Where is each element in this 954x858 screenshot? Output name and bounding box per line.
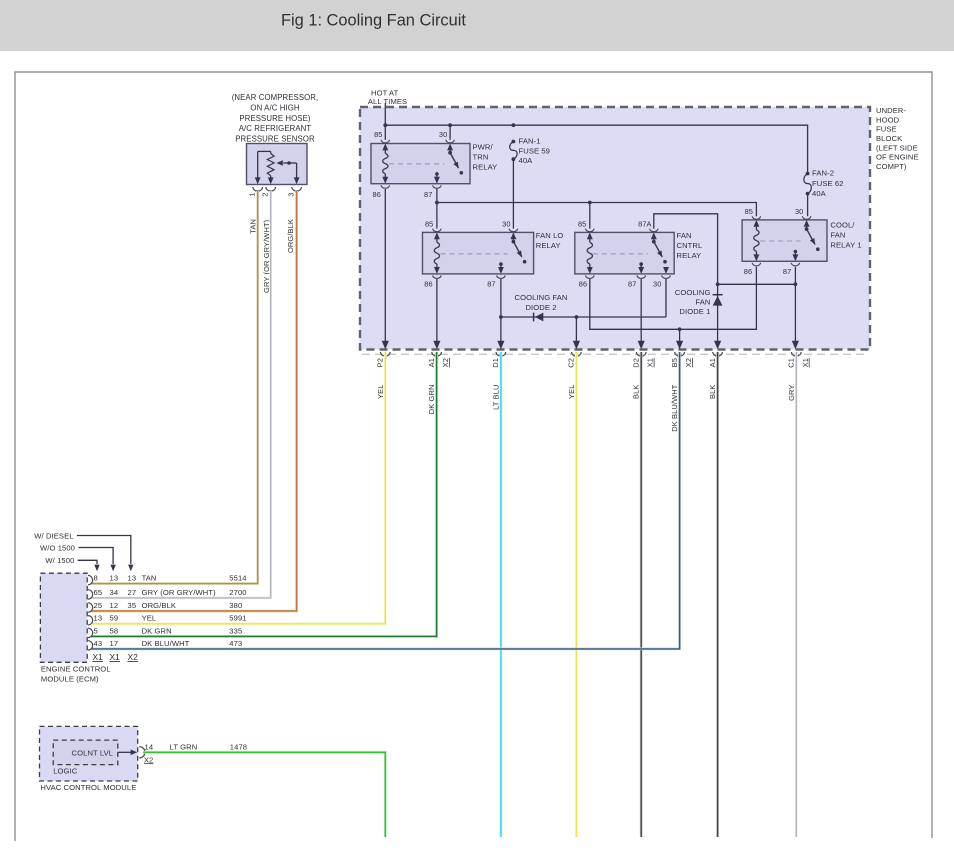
svg-text:BLOCK: BLOCK [876, 134, 902, 143]
label FAN LO RELAY [536, 231, 564, 250]
node W/O 1500 [40, 544, 116, 572]
svg-text:FAN: FAN [677, 231, 692, 240]
node ECM row YEL 5991 [88, 614, 247, 625]
pin 85 U1 [374, 130, 389, 143]
svg-text:RELAY: RELAY [536, 241, 561, 250]
svg-text:5: 5 [94, 626, 98, 635]
node ECM row DK BLU/WHT 473 [88, 639, 242, 650]
underhood fuse block label [876, 106, 919, 171]
svg-text:DK BLU/WHT: DK BLU/WHT [142, 639, 190, 648]
svg-text:A1: A1 [427, 358, 436, 367]
svg-text:PRESSURE HOSE): PRESSURE HOSE) [239, 114, 310, 123]
svg-text:(LEFT SIDE: (LEFT SIDE [876, 143, 918, 152]
svg-text:DK GRN: DK GRN [427, 385, 436, 415]
pin 87 U2 [487, 275, 505, 288]
svg-text:HOOD: HOOD [876, 115, 900, 124]
svg-text:59: 59 [110, 614, 119, 623]
svg-text:87: 87 [424, 190, 432, 199]
junction 86-net at B5 [678, 327, 682, 331]
svg-text:FAN-2: FAN-2 [812, 169, 834, 178]
pin 30 U1 [439, 130, 454, 143]
wire U2 pin87 down [497, 279, 504, 349]
svg-text:85: 85 [374, 130, 382, 139]
label PWR/TRN RELAY [473, 143, 498, 172]
node A1 exit label [708, 352, 723, 399]
wire YEL circuit C2 [575, 352, 578, 837]
wire U2 pin86 to exit A1 [433, 279, 440, 349]
svg-text:GRY (OR GRY/WHT): GRY (OR GRY/WHT) [142, 588, 217, 597]
junction bus at PWR coil [383, 123, 387, 127]
sensor potentiometer R [267, 151, 274, 184]
svg-text:ORG/BLK: ORG/BLK [286, 219, 295, 253]
svg-text:FUSE: FUSE [876, 125, 897, 134]
diode COOLING FAN DIODE 2 [501, 293, 666, 321]
svg-text:473: 473 [229, 639, 242, 648]
svg-text:Fig 1: Cooling Fan Circuit: Fig 1: Cooling Fan Circuit [281, 12, 466, 30]
wire BLK circuit A1 [716, 352, 719, 837]
node ECM row ORG/BLK 380 [88, 601, 242, 612]
svg-text:YEL: YEL [567, 385, 576, 399]
svg-text:5991: 5991 [229, 614, 246, 623]
svg-text:30: 30 [502, 219, 510, 228]
pin 30 U2 [502, 219, 517, 231]
fuse FAN-2 FUSE 62 40A [804, 169, 844, 199]
svg-text:PWR/: PWR/ [473, 143, 494, 152]
svg-text:RELAY 1: RELAY 1 [830, 240, 861, 249]
svg-text:LOGIC: LOGIC [53, 766, 78, 775]
svg-text:TRN: TRN [473, 153, 489, 162]
svg-text:W/O 1500: W/O 1500 [40, 544, 75, 553]
relay U3 pin 30 stub [663, 267, 669, 274]
svg-text:13: 13 [94, 614, 103, 623]
label ENGINE CONTROL MODULE (ECM) [41, 665, 111, 684]
wire LT BLU circuit D1 [499, 352, 502, 837]
svg-text:65: 65 [94, 588, 103, 597]
svg-text:FUSE 62: FUSE 62 [812, 179, 844, 188]
svg-text:86: 86 [744, 267, 752, 276]
svg-text:TAN: TAN [248, 219, 257, 234]
relay U1 coil [382, 144, 388, 184]
wire U3 87A up-over-down [654, 214, 718, 284]
pin 85 U2 [425, 219, 441, 231]
svg-text:87: 87 [628, 279, 636, 288]
svg-text:W/ DIESEL: W/ DIESEL [34, 532, 73, 541]
svg-text:25: 25 [94, 601, 103, 610]
junction bus at PWR switch [448, 123, 452, 127]
svg-text:17: 17 [110, 639, 119, 648]
label FAN CNTRL RELAY [677, 231, 703, 260]
svg-text:BLK: BLK [708, 385, 717, 399]
svg-text:30: 30 [439, 130, 447, 139]
wire GRY circuit C1 [795, 352, 798, 837]
svg-text:2700: 2700 [229, 588, 246, 597]
svg-text:COMPT): COMPT) [876, 162, 907, 171]
ECM connector ids X1 X1 X2 [93, 652, 139, 662]
sensor caption [232, 93, 319, 144]
svg-text:FAN-1: FAN-1 [519, 137, 541, 146]
svg-text:40A: 40A [812, 189, 827, 198]
relay U1 PWR/TRN RELAY box [371, 144, 470, 184]
node P2 exit label [376, 352, 391, 399]
svg-text:85: 85 [578, 219, 586, 228]
sensor pin 2 [260, 187, 275, 197]
relay U1 switch [447, 144, 463, 175]
svg-text:P2: P2 [376, 358, 385, 367]
svg-text:C2: C2 [567, 358, 576, 368]
svg-text:UNDER-: UNDER- [876, 106, 907, 115]
svg-text:COLNT LVL: COLNT LVL [72, 748, 114, 757]
relay U4 COOL/FAN RELAY 1 box [742, 220, 827, 261]
pin 87 U4 [783, 263, 800, 276]
svg-text:3: 3 [286, 193, 295, 197]
HVAC COLNT LVL logic box [53, 740, 118, 765]
svg-text:87: 87 [783, 267, 791, 276]
svg-text:43: 43 [94, 639, 103, 648]
pin 86 U4 [744, 263, 761, 276]
svg-text:HVAC CONTROL MODULE: HVAC CONTROL MODULE [40, 783, 136, 792]
svg-text:BLK: BLK [632, 385, 641, 399]
wire DK BLU/WHT circuit 473 (B5 to ECM) [91, 352, 680, 649]
svg-text:8: 8 [94, 574, 98, 583]
svg-text:87: 87 [487, 279, 495, 288]
wire LT GRN circuit 1478 [143, 752, 385, 837]
wire B5 exit [676, 329, 683, 349]
pin 30 U3 [653, 275, 670, 288]
relay U3 coil [587, 232, 593, 274]
svg-text:12: 12 [110, 601, 119, 610]
wire U3 pin87 to exit D2 [638, 279, 645, 349]
relay U2 pin 87 stub [498, 262, 504, 274]
svg-text:FAN: FAN [830, 230, 845, 239]
sensor internal pin1 lead [255, 151, 271, 184]
svg-text:COOLING FAN: COOLING FAN [515, 293, 568, 302]
svg-text:ALL TIMES: ALL TIMES [368, 97, 407, 106]
relay U3 FAN CNTRL RELAY box [575, 232, 674, 274]
svg-text:86: 86 [373, 190, 381, 199]
svg-text:YEL: YEL [142, 614, 157, 623]
svg-text:X2: X2 [128, 652, 139, 662]
label HVAC CONTROL MODULE [40, 783, 136, 792]
relay U2 switch [510, 232, 526, 263]
sensor B1 A/C refrigerant pressure sensor box [247, 144, 308, 185]
svg-text:30: 30 [653, 279, 661, 288]
wire 87 rail [437, 203, 757, 217]
svg-text:(NEAR COMPRESSOR,: (NEAR COMPRESSOR, [232, 93, 319, 102]
node HOT AT ALL TIMES [368, 89, 407, 107]
fuse block connector face line [362, 353, 868, 355]
svg-text:B5: B5 [670, 358, 679, 367]
pin 86 U2 [424, 275, 441, 288]
svg-text:RELAY: RELAY [473, 163, 498, 172]
svg-text:A/C REFRIGERANT: A/C REFRIGERANT [239, 124, 312, 133]
pin 87 U1 [424, 185, 441, 199]
junction bus at fuse FAN-1 [512, 123, 516, 127]
node B5 exit label [670, 352, 693, 432]
svg-text:ENGINE CONTROL: ENGINE CONTROL [41, 665, 111, 674]
node W/ DIESEL [34, 532, 133, 572]
svg-text:85: 85 [425, 219, 433, 228]
svg-text:DIODE 1: DIODE 1 [679, 307, 710, 316]
wire TAN circuit 5514 [91, 191, 258, 584]
sensor wiper arm [276, 160, 299, 184]
underhood fuse block outline [360, 107, 870, 350]
svg-text:27: 27 [128, 588, 137, 597]
fuse FAN-1 FUSE 59 40A [510, 137, 550, 166]
wire U1 pin86 to exit P2 [382, 189, 389, 349]
relay U2 FAN LO RELAY box [423, 232, 534, 274]
svg-text:D1: D1 [491, 358, 500, 368]
svg-text:1478: 1478 [230, 743, 247, 752]
relay U4 coil [753, 220, 759, 261]
pin 86 U3 [579, 275, 594, 288]
wire ORG/BLK circuit 380 [91, 191, 297, 611]
HVAC pin 14 X2 [139, 743, 153, 765]
svg-text:40A: 40A [519, 156, 534, 165]
wire pin87 branch left to diode 1 [718, 283, 796, 285]
svg-text:86: 86 [579, 279, 587, 288]
svg-text:58: 58 [110, 626, 119, 635]
svg-text:X2: X2 [684, 358, 693, 367]
svg-text:X1: X1 [110, 652, 121, 662]
svg-text:35: 35 [128, 601, 137, 610]
svg-text:5514: 5514 [229, 574, 246, 583]
junction diode1 top [716, 282, 720, 286]
svg-text:85: 85 [745, 207, 753, 216]
svg-text:335: 335 [229, 626, 242, 635]
junction rail at FAN LO 85 [435, 201, 439, 205]
diode COOLING FAN DIODE 1 [675, 284, 723, 349]
wire DK GRN circuit 335 (A1 to ECM) [91, 352, 437, 636]
svg-text:LT GRN: LT GRN [170, 743, 198, 752]
pin 85 U3 [578, 219, 594, 231]
pin 85 U4 [745, 207, 761, 219]
svg-text:30: 30 [795, 207, 803, 216]
relay U3 switch [651, 232, 667, 263]
pin 30 U4 [795, 207, 811, 219]
svg-text:380: 380 [229, 601, 242, 610]
svg-text:X1: X1 [93, 652, 104, 662]
HVAC logic output arrow [118, 750, 137, 756]
label COOL/FAN RELAY 1 [830, 220, 861, 249]
wire U1 pin87 down to rail [436, 189, 438, 203]
node C1 exit label [787, 352, 810, 401]
wire rail to FAN CNTRL pin 85 [589, 203, 591, 229]
wire BLK circuit D2 [640, 352, 643, 837]
svg-text:LT BLU: LT BLU [491, 385, 500, 410]
junction pin87 branch to diode1 [794, 282, 798, 286]
junction diode2 at C2 exit [575, 315, 579, 319]
wire hot feed into block [384, 103, 386, 140]
node D2 exit label [631, 352, 654, 399]
wire bus to pin30 PWR/TRN [449, 125, 451, 140]
pin 86 U1 [373, 185, 390, 199]
svg-text:34: 34 [110, 588, 119, 597]
ECM box [40, 573, 87, 662]
svg-text:DK GRN: DK GRN [142, 626, 172, 635]
svg-text:X1: X1 [646, 358, 655, 367]
node ECM row GRY (OR GRY/WHT) 2700 [88, 588, 247, 599]
junction diode2 at FAN LO 87 [499, 315, 503, 319]
svg-text:DIODE 2: DIODE 2 [525, 303, 556, 312]
wire GRY circuit 2700 [91, 191, 271, 598]
svg-text:A1: A1 [708, 358, 717, 367]
label LT GRN 1478 [170, 743, 247, 752]
wire YEL circuit 5991 (P2 to ECM) [91, 352, 385, 624]
relay U3 pin 87 stub [638, 262, 644, 274]
svg-text:X1: X1 [801, 358, 810, 367]
node W/ 1500 [45, 556, 99, 571]
svg-text:PRESSURE SENSOR: PRESSURE SENSOR [235, 135, 315, 144]
svg-text:D2: D2 [631, 358, 640, 368]
sensor pin 1 [247, 187, 262, 197]
relay U2 coil [434, 232, 440, 274]
svg-text:ON A/C HIGH: ON A/C HIGH [250, 103, 299, 112]
svg-text:YEL: YEL [376, 385, 385, 399]
svg-text:GRY: GRY [787, 385, 796, 401]
label TAN wire [248, 219, 257, 234]
svg-text:C1: C1 [787, 358, 796, 368]
svg-text:FAN LO: FAN LO [536, 231, 564, 240]
svg-text:OF ENGINE: OF ENGINE [876, 153, 919, 162]
svg-text:DK BLU/WHT: DK BLU/WHT [670, 384, 679, 432]
svg-text:1: 1 [247, 193, 256, 197]
svg-text:X2: X2 [441, 358, 450, 367]
pin 87 U3 [628, 275, 645, 288]
junction rail at FAN CNTRL 85 [588, 201, 592, 205]
svg-text:13: 13 [128, 574, 137, 583]
sensor pin 3 [286, 187, 301, 197]
svg-text:MODULE (ECM): MODULE (ECM) [41, 675, 99, 684]
node D1 exit label [491, 352, 506, 410]
wire rail to FAN LO pin 85 [436, 203, 438, 229]
label LOGIC [53, 766, 78, 775]
svg-text:87A: 87A [638, 219, 651, 228]
svg-text:RELAY: RELAY [677, 251, 702, 260]
label GRY (OR GRY/WHT) wire [262, 219, 271, 293]
svg-text:W/ 1500: W/ 1500 [45, 556, 74, 565]
node A1 exit label [427, 352, 450, 414]
node C2 exit label [567, 352, 582, 399]
node ECM row DK GRN 335 [88, 626, 242, 637]
label ORG/BLK wire [286, 219, 295, 253]
svg-text:CNTRL: CNTRL [677, 241, 703, 250]
svg-text:COOLING: COOLING [675, 288, 711, 297]
svg-text:FUSE 59: FUSE 59 [519, 146, 551, 155]
relay U4 pin 87 stub [792, 250, 798, 262]
wire fuse FAN-2 to COOL/FAN pin 30 [807, 194, 809, 217]
wire fuse FAN-1 to FAN LO pin 30 [512, 159, 514, 228]
wire top bus [385, 125, 807, 173]
svg-text:86: 86 [424, 279, 432, 288]
wire diode2 to FAN CNTRL pin 30 [665, 279, 667, 318]
relay U1 pin 87 stub [434, 172, 440, 184]
wire U3 pin86 right to COOL/FAN 86 [590, 267, 757, 330]
svg-text:COOL/: COOL/ [830, 220, 855, 229]
svg-text:2: 2 [260, 193, 269, 197]
svg-text:X2: X2 [144, 755, 154, 764]
svg-text:TAN: TAN [142, 574, 157, 583]
node ECM row TAN 5514 [88, 574, 247, 585]
svg-text:ORG/BLK: ORG/BLK [142, 601, 176, 610]
pin 87A U3 [638, 219, 658, 231]
HVAC control module box [40, 726, 138, 781]
wire diode2 to exit C2 [573, 317, 580, 349]
svg-text:FAN: FAN [695, 298, 710, 307]
relay U4 switch [804, 220, 820, 251]
svg-text:13: 13 [110, 574, 119, 583]
header bar [0, 0, 954, 51]
wire U4 pin87 down to exit C1 [792, 267, 799, 350]
svg-text:14: 14 [145, 743, 154, 752]
